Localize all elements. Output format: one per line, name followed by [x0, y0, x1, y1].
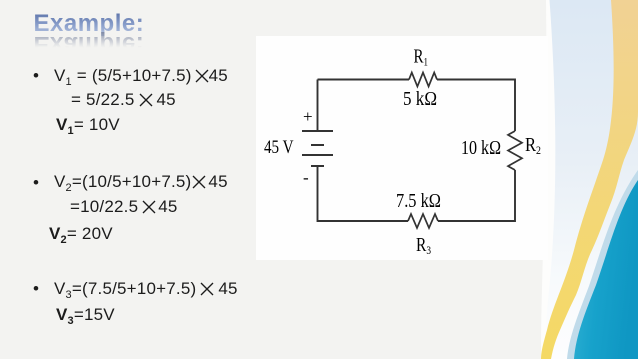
line V2= 20V — [49, 225, 113, 242]
wire: top right segment — [437, 80, 515, 132]
slide bg under decoration — [540, 0, 638, 359]
battery plate short — [311, 144, 324, 146]
bullet 3 — [33, 280, 39, 297]
battery plate short bottom — [311, 165, 324, 167]
battery plate long top — [302, 130, 333, 132]
white base strip — [541, 0, 638, 359]
svg-text:45 V: 45 V — [264, 137, 294, 158]
teal shape — [574, 180, 638, 359]
wire: battery to top — [317, 80, 319, 132]
resistor R2 zigzag vertical — [508, 131, 522, 170]
circuit panel — [256, 36, 548, 260]
line =10/22.5 X45 — [70, 198, 178, 215]
svg-text:7.5 kΩ: 7.5 kΩ — [396, 190, 441, 212]
right side decoration — [540, 0, 638, 359]
wire: top left segment — [318, 79, 410, 81]
title reflection — [34, 32, 145, 56]
title "Example:" with reflection — [34, 12, 145, 36]
svg-text:-: - — [303, 168, 309, 187]
line V3=15V — [56, 306, 115, 323]
line V3=(7.5/5+10+7.5)X45 — [54, 280, 238, 297]
light teal edge band — [567, 170, 638, 359]
svg-text:10 kΩ: 10 kΩ — [461, 137, 501, 159]
yellow band — [541, 0, 638, 359]
wire: right lower segment — [438, 170, 515, 221]
resistor R3 zigzag — [408, 214, 438, 228]
line V1= 10V — [56, 116, 120, 133]
white panel — [256, 36, 548, 260]
svg-text:5 kΩ: 5 kΩ — [403, 88, 437, 110]
resistor R1 zigzag — [409, 73, 437, 87]
line V2=(10/5+10+7.5)X 45 — [54, 173, 228, 190]
svg-text:+: + — [303, 107, 313, 126]
light blue band — [546, 0, 638, 359]
wire: bottom left segment — [318, 166, 409, 221]
battery plate long — [302, 154, 333, 156]
line = 5/22.5 X 45 — [71, 91, 176, 108]
bullet 1 — [33, 67, 39, 84]
bullet 2 — [33, 174, 39, 191]
line V1 = (5/5+10+7.5)X45 — [54, 67, 228, 84]
